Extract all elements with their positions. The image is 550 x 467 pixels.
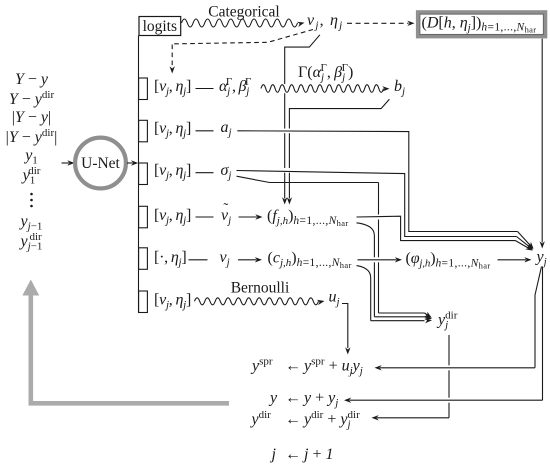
svg-text:←: ←: [285, 358, 301, 375]
wire row3 dash: [196, 172, 214, 174]
wire vtilde to f arrow: [239, 216, 258, 218]
wire b_j down to (f): [289, 99, 389, 128]
svg-text:αjΓ, βjΓ: αjΓ, βjΓ: [219, 76, 251, 98]
U-Net circle: [75, 138, 126, 189]
wire f to y_j^dir: [357, 223, 375, 236]
wire row2 dash: [196, 130, 214, 132]
svg-text:Bernoulli: Bernoulli: [231, 280, 290, 297]
vector box row5: [139, 248, 148, 269]
wire y_j to y+y_j row: [542, 267, 544, 401]
svg-text:[νj, ηj]: [νj, ηj]: [154, 292, 191, 312]
svg-text:y: y: [268, 390, 278, 407]
wire arrow into U-Net: [62, 162, 70, 164]
wire D box down to y_j: [541, 39, 543, 243]
wire c to y_j^dir: [357, 266, 371, 278]
svg-text:j: j: [270, 446, 277, 463]
wire phi to y_j arrow: [498, 259, 527, 261]
vertical ellipsis: [30, 193, 33, 196]
svg-text:Y − y: Y − y: [15, 71, 49, 88]
wire Gamma squiggle to b_j: [261, 85, 384, 93]
wire u_j down to yspr row: [342, 304, 348, 349]
svg-text:[·, ηj]: [·, ηj]: [154, 249, 186, 269]
vector box row4: [139, 206, 148, 228]
svg-text:j + 1: j + 1: [302, 446, 333, 463]
wire v to c arrow: [238, 259, 257, 261]
wire dashed nu,eta to D box: [347, 22, 409, 24]
wire dashed feedback nu,eta to stack: [172, 30, 313, 67]
svg-text:[νj, ηj]: [νj, ηj]: [154, 207, 191, 227]
wire nu,eta down to (f): [285, 35, 320, 84]
wire row1 dash: [196, 88, 214, 90]
svg-text:y + yj: y + yj: [302, 390, 338, 410]
svg-text:|Y − y|: |Y − y|: [12, 109, 51, 126]
svg-text:U-Net: U-Net: [81, 155, 120, 172]
wire stack spine vertical: [138, 36, 140, 313]
wire gray loop arrow: [31, 293, 229, 404]
svg-text:[νj, ηj]: [νj, ηj]: [154, 120, 191, 140]
svg-text:Categorical: Categorical: [208, 3, 279, 20]
wire sigma lower to y_j^dir: [237, 176, 379, 182]
vector box row6: [139, 291, 148, 313]
svg-text:[νj, ηj]: [νj, ηj]: [154, 78, 191, 98]
wire Bernoulli squiggle to u_j: [195, 298, 319, 305]
svg-text:←: ←: [285, 411, 301, 428]
wire sigma upper to y_j: [237, 171, 517, 237]
logits box: [139, 17, 181, 36]
svg-text:logits: logits: [143, 18, 177, 35]
svg-text:←: ←: [285, 446, 301, 463]
svg-text:[νj, ηj]: [νj, ηj]: [154, 162, 191, 182]
vector box row3: [139, 163, 148, 185]
wire row5 dash: [189, 259, 208, 261]
wire f to y_j: [357, 216, 516, 240]
wire a_j to y_j: [237, 131, 517, 232]
wire arrow U-Net to stack: [127, 162, 133, 164]
wire c to phi arrow: [358, 259, 397, 261]
wire y_j^dir down to ydir row: [448, 335, 450, 365]
svg-text:←: ←: [285, 390, 301, 407]
vector box row1: [139, 78, 148, 100]
wire y_j to yspr row: [535, 267, 542, 368]
box (D[h,eta_j]) double border: [418, 12, 546, 37]
wire Categorical squiggle logits to nu,eta: [182, 19, 298, 27]
svg-text:yj−1dir: yj−1dir: [19, 231, 43, 253]
svg-text:νj, ηj: νj, ηj: [307, 12, 343, 32]
vector box row2: [139, 120, 148, 142]
svg-text:˜: ˜: [224, 202, 229, 217]
wire row4 dash: [196, 216, 214, 218]
